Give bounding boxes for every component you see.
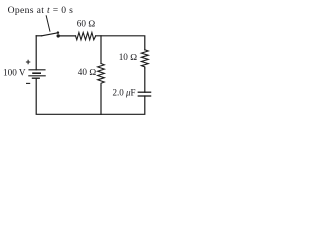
svg-text:40 Ω: 40 Ω — [78, 67, 97, 77]
svg-text:Opens at t = 0 s: Opens at t = 0 s — [8, 5, 74, 16]
svg-text:10 Ω: 10 Ω — [119, 52, 138, 62]
svg-text:60 Ω: 60 Ω — [77, 18, 96, 28]
svg-text:2.0 μF: 2.0 μF — [113, 87, 136, 97]
svg-text:100 V: 100 V — [3, 68, 26, 78]
